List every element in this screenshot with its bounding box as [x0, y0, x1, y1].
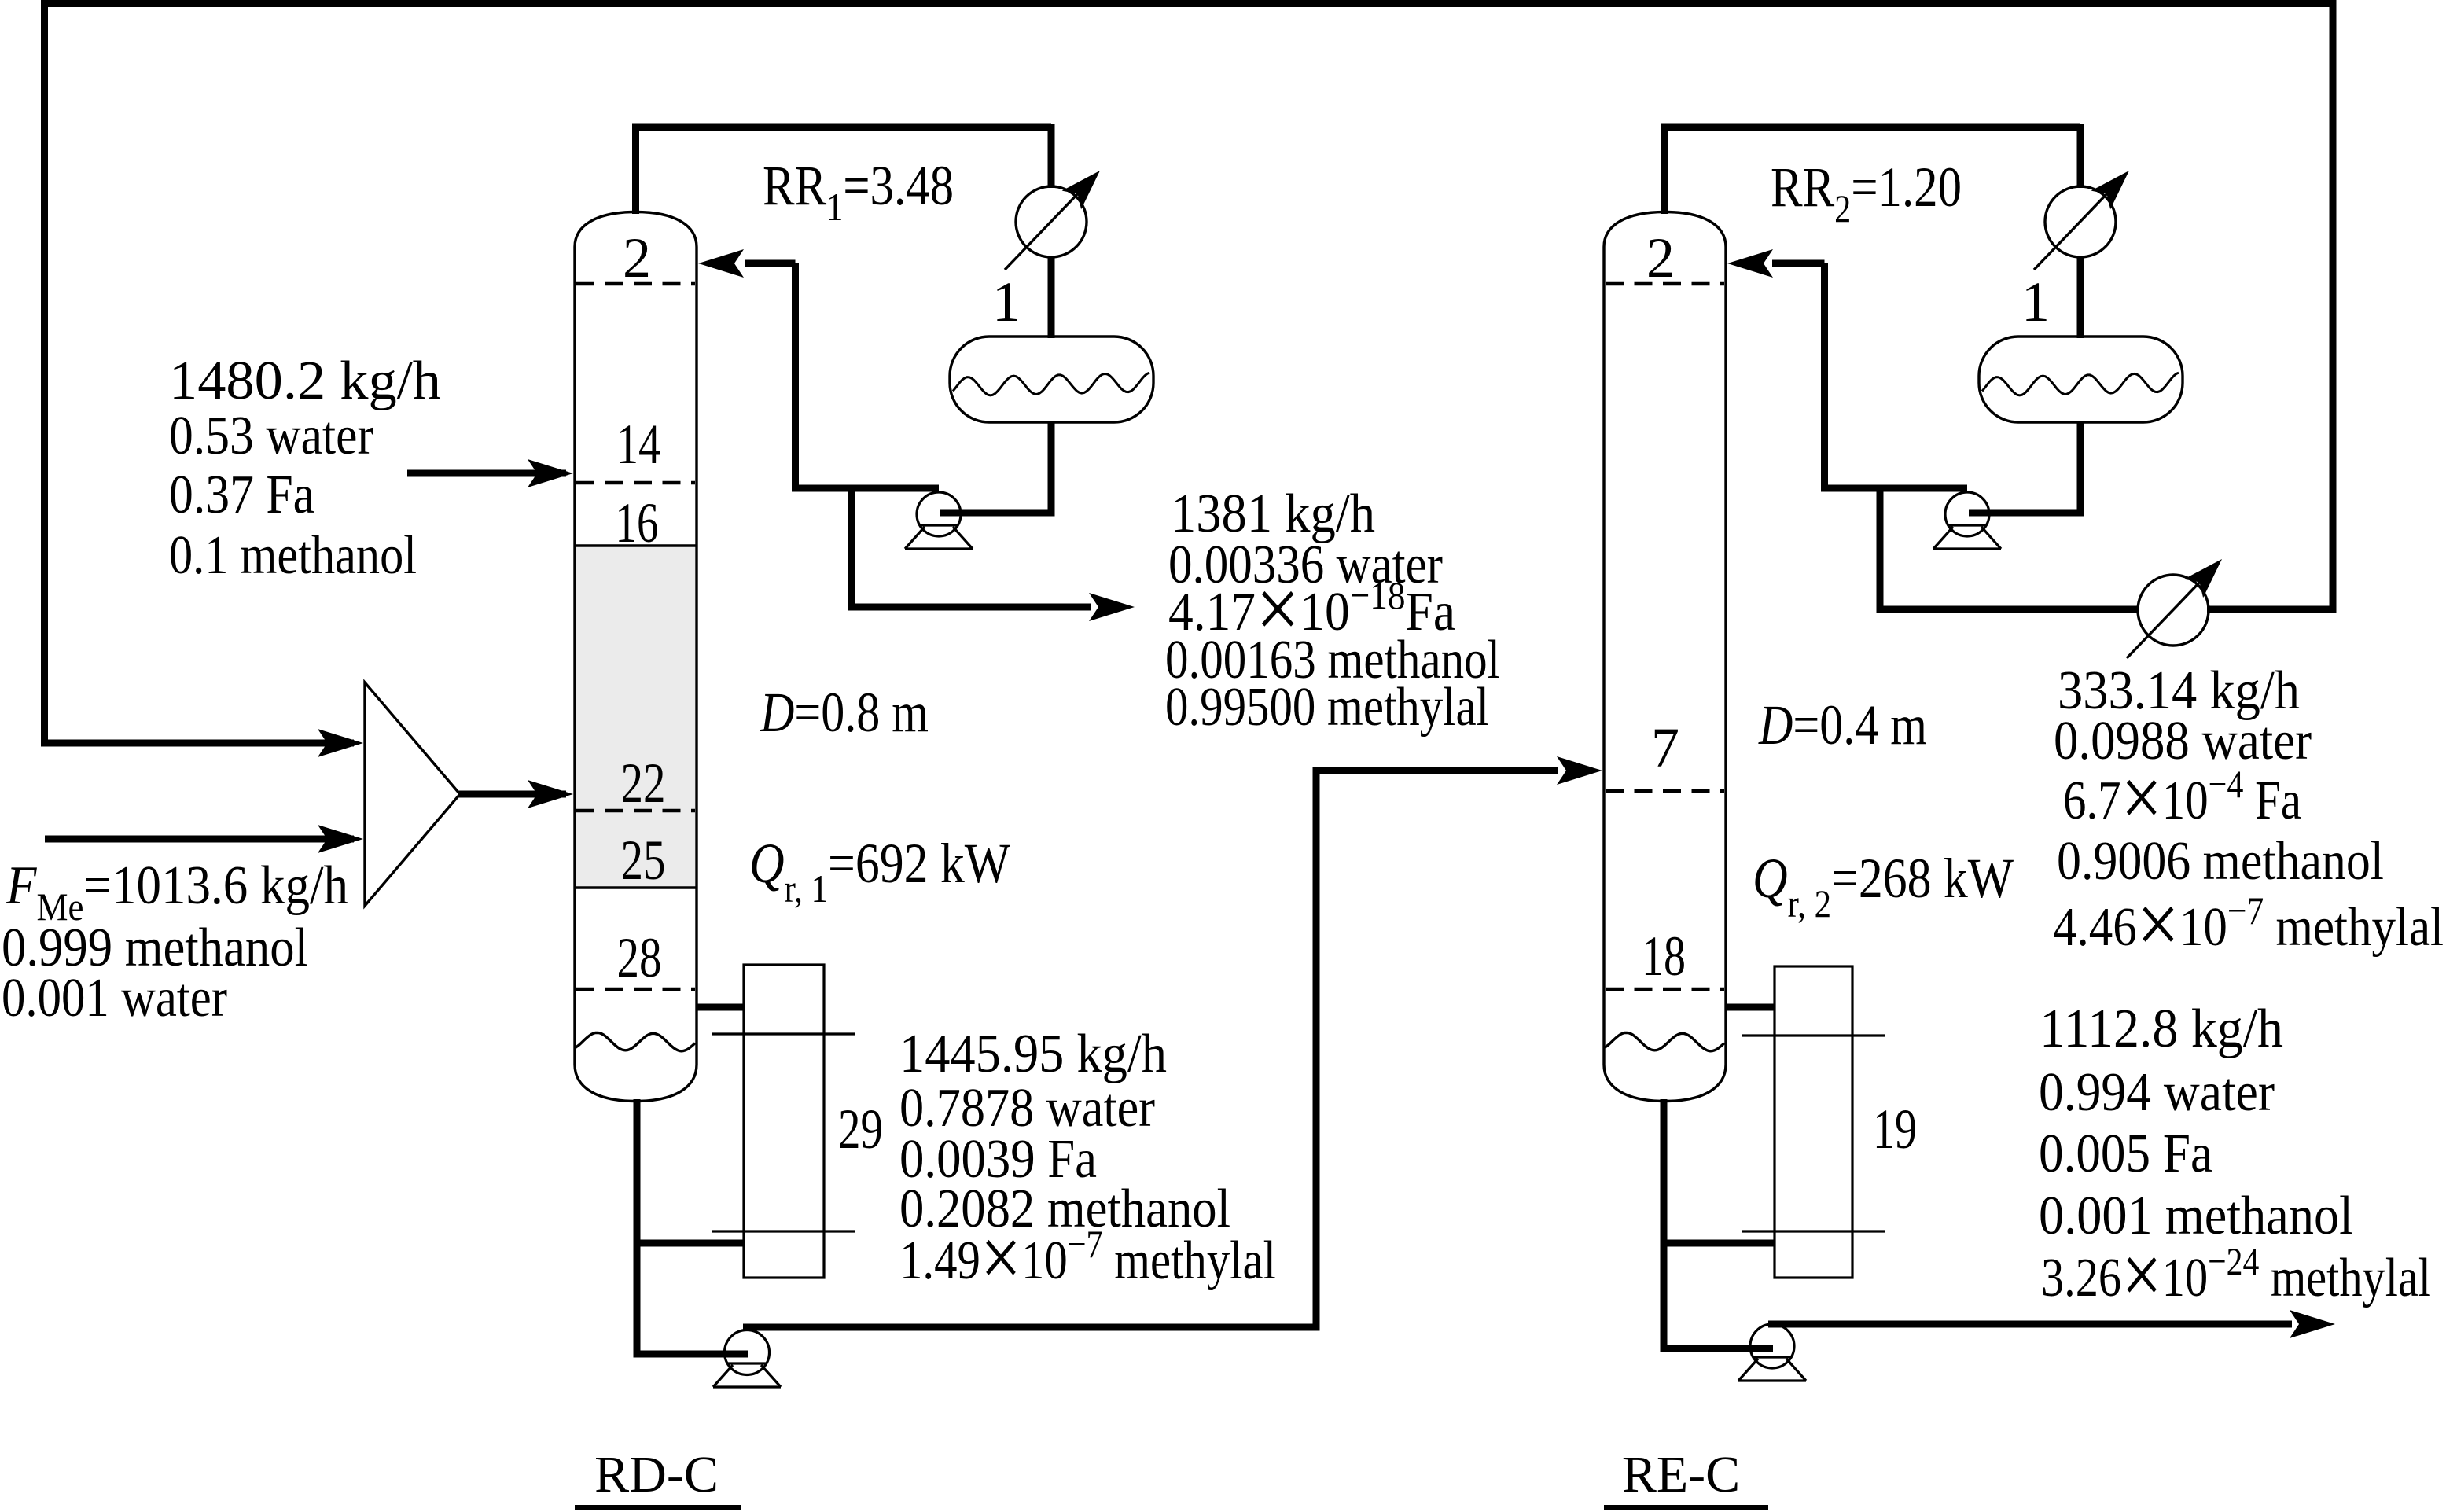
wire RD-C bottoms riser — [634, 1099, 641, 1354]
wire recycle riser — [2330, 0, 2337, 613]
label stage 14 RD-C — [616, 413, 660, 476]
label D=0.8 m — [760, 681, 929, 744]
svg-text:18: 18 — [1642, 925, 1686, 988]
wire distillate 2 to cooler — [1877, 606, 2140, 613]
product cooler — [2127, 575, 2209, 658]
column RE-C stage 18 dashed line — [1606, 988, 1724, 991]
svg-text:7: 7 — [1651, 716, 1679, 779]
wire reflux return to RE-C stage 2 — [1772, 260, 1825, 267]
arrowhead distillate 1 — [1089, 593, 1135, 621]
wire RE-C overhead vapor — [1661, 124, 2080, 214]
wire cooler outlet — [2207, 606, 2337, 613]
text distillate 2 composition — [2053, 660, 2444, 972]
label stage 18 RE-C — [1642, 925, 1686, 988]
wire reboiler 2 return — [1664, 1240, 1775, 1247]
wire recycle left border — [41, 0, 48, 746]
svg-text:0.99500 methylal: 0.99500 methylal — [1165, 677, 1489, 738]
reboiler 2 — [1742, 966, 1885, 1278]
column RD-C shell — [575, 212, 697, 1102]
label RD-C — [575, 1446, 741, 1510]
svg-text:1: 1 — [2021, 270, 2050, 333]
wire RD-C bottoms to pump P3 — [634, 1351, 749, 1358]
mixer M1 — [365, 682, 460, 906]
wire pump P1 discharge — [799, 485, 939, 492]
arrowhead recycle into mixer — [318, 729, 363, 757]
wire reboiler 1 draw-off — [697, 1004, 744, 1011]
condenser 1 arrowhead — [1062, 161, 1110, 209]
column RD-C sump liquid level — [576, 1032, 695, 1050]
label stage 22 RD-C — [621, 752, 666, 815]
wire pump P2 discharge — [1828, 485, 1967, 492]
column RD-C stage 25 solid line — [575, 886, 697, 889]
column RD-C stage 16 solid line — [575, 544, 697, 547]
svg-text:1: 1 — [992, 270, 1021, 333]
label D=0.4 m — [1758, 693, 1927, 756]
wire condenser 1 to reflux drum 1 — [1048, 256, 1055, 338]
reflux drum 2 — [1979, 337, 2183, 422]
text fresh methanol feed composition — [2, 855, 348, 1028]
arrowhead feed into RD-C stage 14 — [528, 459, 573, 487]
label RE-C — [1604, 1446, 1768, 1510]
svg-text:0.001 water: 0.001 water — [2, 968, 227, 1028]
condenser 2 — [2034, 186, 2116, 270]
condenser 1 — [1005, 186, 1087, 270]
arrowhead reflux into RD-C stage 2 — [698, 249, 744, 278]
wire pump P3 discharge — [743, 1324, 1316, 1331]
svg-text:1480.2 kg/h: 1480.2 kg/h — [169, 351, 441, 411]
wire feed to RE-C stage 7 — [1313, 767, 1559, 774]
svg-text:Qr, 2=268 kW: Qr, 2=268 kW — [1753, 847, 2014, 925]
reflux drum 2 liquid level — [1982, 373, 2179, 395]
reflux drum 1 — [950, 337, 1153, 422]
wire recycle return to mixer — [41, 740, 354, 747]
wire fresh methanol feed FMe — [45, 836, 354, 843]
label stage 2 RD-C — [623, 226, 651, 289]
column RE-C shell — [1604, 212, 1726, 1102]
wire reflux drum 1 to pump suction — [940, 421, 1055, 513]
product cooler arrowhead — [2184, 550, 2232, 598]
label stage 1 condenser 1 — [992, 270, 1021, 333]
svg-text:28: 28 — [617, 926, 662, 989]
arrowhead reflux into RE-C stage 2 — [1727, 249, 1773, 278]
text bottoms 1 composition — [899, 1024, 1276, 1305]
label stage 29 reboiler 1 — [838, 1098, 883, 1161]
column RD-C stage 22 dashed line — [576, 809, 695, 813]
svg-text:22: 22 — [621, 752, 666, 815]
pump P3 (RD-C bottoms pump) — [713, 1330, 781, 1388]
svg-text:Qr, 1=692 kW: Qr, 1=692 kW — [749, 832, 1010, 911]
condenser 2 arrowhead — [2091, 161, 2139, 209]
svg-text:0.0988 water: 0.0988 water — [2054, 711, 2312, 771]
label stage 28 RD-C — [617, 926, 662, 989]
column RD-C stage 2 dashed line — [576, 282, 695, 286]
svg-text:2: 2 — [1646, 226, 1675, 289]
wire reflux return to RD-C stage 2 — [745, 260, 796, 267]
column RE-C stage 2 dashed line — [1606, 282, 1724, 286]
column RD-C stage 14 dashed line — [576, 481, 695, 485]
wire distillate 2 drop — [1877, 488, 1884, 609]
column RE-C stage 7 dashed line — [1606, 789, 1724, 793]
label Qr,1=692 kW — [749, 832, 1010, 911]
svg-text:0.001 methanol: 0.001 methanol — [2039, 1186, 2353, 1246]
wire RD-C overhead vapor — [632, 124, 1051, 214]
wire distillate 1 product — [848, 604, 1092, 611]
label stage 19 reboiler 2 — [1873, 1098, 1917, 1161]
arrowhead FMe feed into mixer — [318, 825, 363, 853]
label stage 2 RE-C — [1646, 226, 1675, 289]
label Qr,2=268 kW — [1753, 847, 2014, 925]
label stage 7 RE-C — [1651, 716, 1679, 779]
label stage 1 condenser 2 — [2021, 270, 2050, 333]
wire pump P4 discharge / bottoms product — [1768, 1321, 2292, 1328]
svg-text:D=0.8 m: D=0.8 m — [760, 681, 929, 744]
label stage 16 RD-C — [616, 491, 659, 554]
wire distillate 1 drop — [848, 488, 855, 607]
svg-text:16: 16 — [616, 491, 659, 554]
wire reflux riser 2 — [1821, 263, 1828, 492]
arrowhead bottoms product RE-C — [2290, 1310, 2335, 1338]
wire RE-C bottoms to pump P4 — [1661, 1345, 1774, 1352]
column RE-C sump liquid level — [1605, 1032, 1724, 1050]
svg-text:RD-C: RD-C — [594, 1446, 719, 1503]
svg-text:RR2=1.20: RR2=1.20 — [1771, 156, 1962, 230]
svg-text:0.53 water: 0.53 water — [169, 406, 373, 466]
svg-text:19: 19 — [1873, 1098, 1917, 1161]
svg-text:2: 2 — [623, 226, 651, 289]
svg-text:1112.8 kg/h: 1112.8 kg/h — [2040, 999, 2283, 1059]
pump P1 (reflux pump 1) — [905, 492, 973, 549]
reflux drum 1 liquid level — [953, 373, 1149, 395]
svg-text:29: 29 — [838, 1098, 883, 1161]
label RR2=1.20 — [1771, 156, 1962, 230]
pump P2 (reflux pump 2) — [1933, 492, 2001, 549]
wire feed riser to RE-C — [1313, 767, 1320, 1331]
reboiler 1 — [712, 965, 855, 1278]
svg-text:25: 25 — [621, 829, 666, 892]
svg-text:RR1=3.48: RR1=3.48 — [763, 154, 954, 229]
svg-text:1445.95 kg/h: 1445.95 kg/h — [899, 1024, 1167, 1084]
svg-text:0.1 methanol: 0.1 methanol — [169, 525, 417, 586]
label stage 25 RD-C — [621, 829, 666, 892]
wire reflux riser 1 — [792, 263, 799, 492]
wire RE-C bottoms riser — [1661, 1099, 1668, 1348]
wire recycle top border — [41, 0, 2336, 7]
wire feed 1480.2 kg/h to RD-C stage 14 — [407, 470, 566, 477]
svg-text:0.37 Fa: 0.37 Fa — [169, 465, 314, 525]
wire mixer outlet to RD-C stage 22 — [458, 791, 566, 798]
svg-text:RE-C: RE-C — [1622, 1446, 1740, 1503]
pump P4 (RE-C bottoms pump) — [1738, 1324, 1806, 1381]
text bottoms 2 composition — [2039, 999, 2431, 1323]
svg-text:D=0.4 m: D=0.4 m — [1758, 693, 1927, 756]
svg-text:0.9006 methanol: 0.9006 methanol — [2057, 831, 2384, 892]
column RD-C shaded reactive zone — [576, 547, 695, 886]
label RR1=3.48 — [763, 154, 954, 229]
text distillate 1 composition — [1165, 484, 1500, 738]
wire reboiler 1 return — [634, 1240, 744, 1247]
svg-text:0.994 water: 0.994 water — [2039, 1062, 2275, 1123]
arrowhead feed into RE-C stage 7 — [1557, 756, 1602, 785]
text feed 1 composition — [169, 351, 441, 586]
wire condenser 2 to reflux drum 2 — [2077, 256, 2084, 338]
wire reflux drum 2 to pump suction — [1969, 421, 2084, 513]
wire reboiler 2 draw-off — [1726, 1004, 1775, 1011]
svg-text:0.005 Fa: 0.005 Fa — [2039, 1124, 2212, 1184]
svg-text:14: 14 — [616, 413, 660, 476]
arrowhead mixer outlet into RD-C — [528, 780, 573, 808]
column RD-C stage 28 dashed line — [576, 988, 695, 991]
